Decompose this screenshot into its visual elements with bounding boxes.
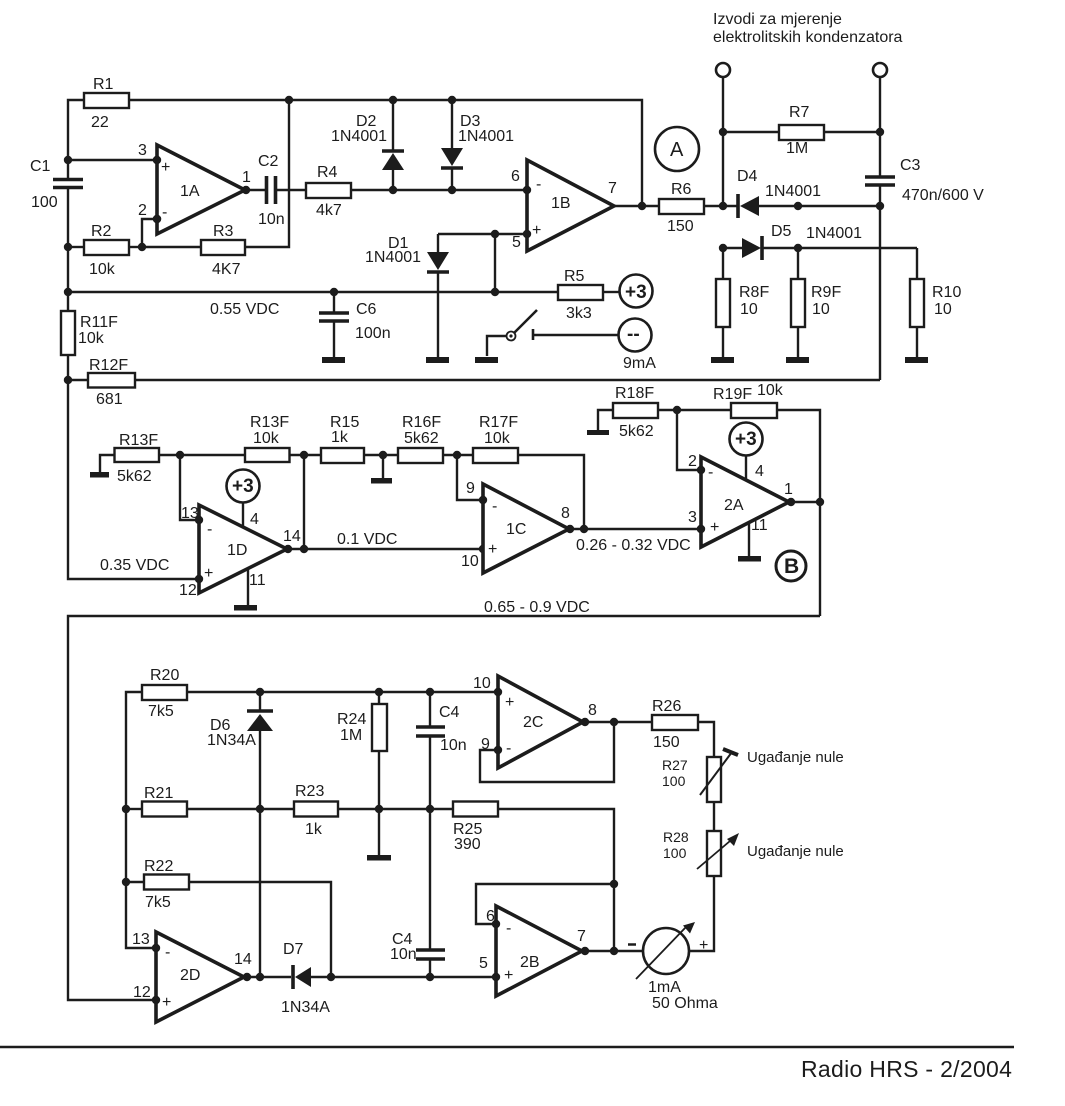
node B label (776, 551, 806, 581)
svg-text:+3: +3 (625, 282, 647, 303)
svg-text:9: 9 (466, 480, 475, 497)
svg-text:D7: D7 (283, 941, 304, 958)
op-amp 2C (473, 675, 597, 768)
svg-text:10k: 10k (757, 382, 784, 399)
node A label (655, 127, 699, 171)
svg-text:R4: R4 (317, 164, 338, 181)
wire meter to 2B output (581, 947, 643, 955)
svg-text:R11F: R11F (80, 314, 118, 331)
wire pin5 (438, 230, 527, 296)
svg-text:2A: 2A (724, 497, 744, 514)
svg-text:22: 22 (91, 114, 109, 131)
svg-text:100: 100 (662, 773, 686, 789)
svg-text:-: - (536, 176, 541, 193)
svg-text:R7: R7 (789, 104, 810, 121)
svg-text:1: 1 (242, 169, 251, 186)
resistor R12F (68, 357, 880, 408)
svg-text:8: 8 (588, 702, 597, 719)
svg-text:681: 681 (96, 391, 123, 408)
svg-text:7k5: 7k5 (148, 703, 174, 720)
svg-text:1N4001: 1N4001 (765, 183, 821, 200)
op-amp 2D (132, 931, 252, 1022)
svg-text:R16F: R16F (402, 414, 441, 431)
svg-text:R5: R5 (564, 268, 585, 285)
svg-text:8: 8 (561, 505, 570, 522)
wire 1B output (614, 202, 659, 210)
diode D5 (719, 223, 917, 260)
resistor R28 trimmer (663, 829, 739, 876)
node R13F right (176, 451, 199, 520)
svg-text:1C: 1C (506, 521, 526, 538)
node R22 left (122, 878, 130, 886)
svg-text:R27: R27 (662, 757, 688, 773)
svg-text:+: + (532, 222, 541, 239)
svg-text:470n/600 V: 470n/600 V (902, 187, 984, 204)
ground R8F (711, 357, 734, 363)
capacitor C2 (258, 153, 285, 228)
svg-text:+: + (162, 994, 171, 1011)
svg-text:+3: +3 (232, 476, 254, 497)
svg-text:2C: 2C (523, 714, 543, 731)
wire 0.65 VDC rail (68, 599, 820, 1000)
svg-text:3k3: 3k3 (566, 305, 592, 322)
svg-text:10: 10 (740, 301, 758, 318)
svg-text:10k: 10k (89, 261, 116, 278)
resistor R7 (723, 104, 880, 157)
resistor R24 (337, 692, 387, 856)
node feedback 1D (300, 451, 308, 549)
svg-text:1D: 1D (227, 542, 247, 559)
svg-text:2D: 2D (180, 967, 200, 984)
svg-text:3: 3 (138, 142, 147, 159)
svg-text:10n: 10n (258, 211, 285, 228)
resistor R9F (791, 248, 841, 357)
svg-text:10k: 10k (484, 430, 511, 447)
resistor R2 (68, 223, 142, 278)
svg-text:9mA: 9mA (623, 355, 656, 372)
svg-text:5k62: 5k62 (117, 468, 152, 485)
resistor R15 (321, 414, 398, 463)
svg-text:10k: 10k (78, 330, 105, 347)
svg-text:150: 150 (667, 218, 694, 235)
svg-text:13: 13 (181, 505, 199, 522)
node C4 R25 junction (426, 805, 434, 813)
svg-text:12: 12 (179, 582, 197, 599)
svg-text:+: + (488, 541, 497, 558)
node R21 left (122, 805, 130, 813)
node C6 (330, 288, 338, 296)
svg-text:12: 12 (133, 984, 151, 1001)
svg-text:C4: C4 (439, 704, 460, 721)
op-amp 1D (179, 505, 287, 599)
resistor R5 (558, 268, 619, 322)
capacitor C6 (319, 292, 391, 357)
wire pin2 (138, 215, 161, 251)
capacitor C3 (865, 157, 984, 380)
resistor R27 trimmer (662, 749, 738, 802)
node R1 left (64, 156, 72, 164)
svg-text:-: - (708, 464, 713, 481)
svg-text:1mA: 1mA (648, 979, 681, 996)
node 2B feedback junction (610, 880, 618, 888)
node D4 right (876, 202, 884, 210)
svg-text:-: - (207, 521, 212, 538)
svg-text:3: 3 (688, 509, 697, 526)
svg-text:10: 10 (473, 675, 491, 692)
svg-text:100n: 100n (355, 325, 391, 342)
terminal 2 (873, 63, 887, 177)
svg-text:14: 14 (234, 951, 252, 968)
svg-text:6: 6 (511, 168, 520, 185)
switch (475, 310, 618, 363)
svg-text:11: 11 (249, 572, 266, 589)
ground pin11 2A (738, 517, 768, 562)
svg-text:2: 2 (138, 202, 147, 219)
svg-text:R2: R2 (91, 223, 112, 240)
svg-text:14: 14 (283, 528, 301, 545)
svg-text:-: - (165, 944, 170, 961)
svg-text:B: B (784, 555, 799, 578)
resistor R10 (910, 248, 961, 357)
svg-text:--: -- (627, 324, 640, 345)
wire 2D output (243, 973, 291, 981)
ground D1 (426, 357, 449, 363)
svg-text:A: A (670, 139, 684, 161)
svg-text:4: 4 (755, 463, 764, 480)
diode D2 (331, 96, 404, 190)
svg-text:1N34A: 1N34A (281, 999, 330, 1016)
svg-text:+: + (161, 159, 170, 176)
ground R9F (786, 357, 809, 363)
svg-text:5k62: 5k62 (404, 430, 439, 447)
node C4 top (426, 688, 434, 696)
svg-text:7: 7 (608, 180, 617, 197)
svg-text:6: 6 (486, 908, 495, 925)
svg-text:+: + (204, 565, 213, 582)
node D3 bottom (448, 186, 456, 194)
resistor R22 (126, 858, 331, 977)
svg-text:7k5: 7k5 (145, 894, 171, 911)
node top rail R3 junction (285, 96, 293, 104)
resistor R13F 5k62 (115, 432, 246, 485)
resistor R11F (61, 311, 118, 380)
resistor R17F (473, 414, 518, 463)
svg-text:R20: R20 (150, 667, 179, 684)
node R12F (64, 376, 72, 384)
svg-text:10: 10 (812, 301, 830, 318)
ground R15 (371, 451, 392, 484)
diode D1 (365, 234, 449, 357)
op-amp 2A (688, 457, 793, 547)
svg-text:C2: C2 (258, 153, 279, 170)
node pin9 junction (453, 451, 483, 500)
svg-text:10n: 10n (440, 737, 467, 754)
wire 1A output (242, 186, 266, 194)
svg-text:1N4001: 1N4001 (458, 128, 514, 145)
svg-text:R12F: R12F (89, 357, 128, 374)
svg-text:0.65 - 0.9 VDC: 0.65 - 0.9 VDC (484, 599, 590, 616)
svg-text:R6: R6 (671, 181, 692, 198)
wire 2C feedback (480, 722, 614, 782)
diode D7 (281, 941, 496, 1016)
wire pin3 (68, 156, 161, 164)
footer text (801, 1056, 1012, 1082)
svg-text:R23: R23 (295, 783, 324, 800)
svg-text:R9F: R9F (811, 284, 841, 301)
svg-text:10k: 10k (253, 430, 280, 447)
resistor R18F (613, 385, 731, 440)
svg-text:R13F: R13F (119, 432, 158, 449)
svg-text:13: 13 (132, 931, 150, 948)
svg-text:2B: 2B (520, 954, 540, 971)
wire 2B feedback (476, 884, 614, 924)
svg-text:elektrolitskih kondenzatora: elektrolitskih kondenzatora (713, 29, 903, 46)
node +3 2A (730, 423, 765, 481)
resistor R13F 10k (245, 414, 321, 462)
svg-text:1M: 1M (786, 140, 808, 157)
ground C6 (322, 357, 345, 363)
svg-text:+3: +3 (735, 429, 757, 450)
svg-text:R8F: R8F (739, 284, 769, 301)
svg-text:1: 1 (784, 481, 793, 498)
svg-text:+: + (504, 967, 513, 984)
svg-text:50 Ohma: 50 Ohma (652, 995, 718, 1012)
resistor R8F (716, 248, 769, 357)
label Ugadanje nule 1 (747, 749, 844, 766)
svg-text:R1: R1 (93, 76, 114, 93)
svg-text:R24: R24 (337, 711, 366, 728)
op-amp 2B (479, 906, 586, 996)
svg-text:+: + (505, 694, 514, 711)
svg-text:5k62: 5k62 (619, 423, 654, 440)
ground R18F (587, 410, 613, 435)
svg-text:1k: 1k (305, 821, 323, 838)
wire left column bottom (126, 692, 156, 948)
svg-text:R26: R26 (652, 698, 681, 715)
svg-text:10n: 10n (390, 946, 417, 963)
resistor R3 (142, 223, 245, 278)
svg-text:5: 5 (512, 234, 521, 251)
svg-text:+: + (710, 519, 719, 536)
svg-text:1A: 1A (180, 183, 200, 200)
capacitor C1 (30, 158, 83, 211)
resistor R26 (652, 698, 714, 757)
terminal 1 (716, 63, 730, 206)
svg-text:R22: R22 (144, 858, 173, 875)
wire R4 to pin6 (351, 189, 527, 191)
capacitor C4 bottom (390, 931, 445, 981)
svg-text:C1: C1 (30, 158, 51, 175)
diode D4 (737, 168, 880, 218)
wire C2 to R4 (275, 189, 306, 191)
label Izvodi (713, 11, 903, 46)
svg-text:4k7: 4k7 (316, 202, 342, 219)
node R24 top (375, 688, 383, 696)
svg-text:C3: C3 (900, 157, 921, 174)
svg-text:R3: R3 (213, 223, 234, 240)
svg-text:10: 10 (461, 553, 479, 570)
svg-text:0.35 VDC: 0.35 VDC (100, 557, 169, 574)
svg-text:R13F: R13F (250, 414, 289, 431)
svg-text:R19F: R19F (713, 386, 752, 403)
svg-text:0.26 - 0.32 VDC: 0.26 - 0.32 VDC (576, 537, 691, 554)
svg-text:R28: R28 (663, 829, 689, 845)
svg-text:Ugađanje nule: Ugađanje nule (747, 843, 844, 860)
resistor R6 (659, 181, 738, 235)
resistor R23 (294, 783, 338, 838)
node D6 top (256, 688, 264, 696)
svg-text:150: 150 (653, 734, 680, 751)
svg-text:C6: C6 (356, 301, 377, 318)
svg-text:10: 10 (934, 301, 952, 318)
label Ugadanje nule 2 (747, 843, 844, 860)
svg-text:1B: 1B (551, 195, 571, 212)
svg-text:-: - (506, 740, 511, 757)
svg-text:1M: 1M (340, 727, 362, 744)
svg-text:R21: R21 (144, 785, 173, 802)
wire 0.1 VDC (283, 528, 487, 553)
svg-text:7: 7 (577, 928, 586, 945)
resistor R25 (453, 802, 614, 953)
wire R3 to top rail (245, 100, 289, 247)
node 9mA source (619, 319, 657, 373)
resistor R1 (84, 76, 129, 131)
svg-text:-: - (162, 204, 167, 221)
ground pin11 1D (234, 569, 266, 611)
resistor R20 (142, 667, 498, 720)
svg-text:1N4001: 1N4001 (806, 225, 862, 242)
svg-text:-: - (506, 920, 511, 937)
node C1 bottom (64, 243, 72, 251)
svg-text:R17F: R17F (479, 414, 518, 431)
resistor R21 (142, 785, 187, 817)
svg-text:1N4001: 1N4001 (365, 249, 421, 266)
wire 2C output (581, 718, 652, 726)
wire C1 to R2 node (67, 187, 69, 311)
wire R21 R23 line (126, 808, 453, 810)
svg-text:Izvodi za mjerenje: Izvodi za mjerenje (713, 11, 842, 28)
ground R10 (905, 357, 928, 363)
diode D6 (207, 692, 273, 977)
wire R19F to output (777, 410, 824, 616)
node +3 supply (620, 275, 653, 308)
wire top rail (68, 100, 642, 206)
svg-text:R18F: R18F (615, 385, 654, 402)
node +3 1D (227, 470, 260, 529)
ground R24 (367, 855, 391, 861)
svg-text:0.55 VDC: 0.55 VDC (210, 301, 279, 318)
svg-text:5: 5 (479, 955, 488, 972)
op-amp 1C (461, 480, 570, 573)
wire 2A output (787, 498, 820, 506)
resistor R4 (306, 164, 351, 219)
svg-text:2: 2 (688, 453, 697, 470)
svg-text:+: + (699, 937, 708, 954)
footer line (0, 1046, 1014, 1049)
node pin2 junction (673, 406, 701, 470)
resistor R19F (713, 382, 784, 418)
node rail 0.55 (64, 288, 72, 296)
svg-text:390: 390 (454, 836, 481, 853)
resistor R16F (398, 414, 473, 463)
svg-text:-: - (492, 498, 497, 515)
wire R17F feedback (518, 455, 584, 529)
svg-text:4K7: 4K7 (212, 261, 241, 278)
wire 1C output (566, 525, 705, 554)
svg-text:1N4001: 1N4001 (331, 128, 387, 145)
svg-text:100: 100 (663, 845, 687, 861)
diode D3 (441, 96, 514, 190)
meter 1mA (628, 922, 718, 1012)
wire 0.35 VDC (68, 380, 199, 579)
svg-text:D4: D4 (737, 168, 758, 185)
svg-text:100: 100 (31, 194, 58, 211)
svg-text:R10: R10 (932, 284, 961, 301)
svg-text:D5: D5 (771, 223, 792, 240)
svg-text:4: 4 (250, 511, 259, 528)
op-amp 1B (511, 160, 617, 251)
svg-text:Radio HRS - 2/2004: Radio HRS - 2/2004 (801, 1056, 1012, 1082)
node D6 R23 junction (256, 805, 264, 813)
node R24 bottom (375, 805, 383, 813)
op-amp 1A (138, 142, 251, 234)
ground R13F (90, 455, 114, 478)
wire 0.55 VDC rail (68, 292, 558, 318)
node D2 bottom (389, 186, 397, 194)
wire R27 to R28 (713, 802, 715, 831)
capacitor C4 top (416, 692, 467, 950)
svg-text:1N34A: 1N34A (207, 732, 256, 749)
svg-text:11: 11 (751, 517, 768, 534)
svg-text:0.1 VDC: 0.1 VDC (337, 531, 397, 548)
svg-text:Ugađanje nule: Ugađanje nule (747, 749, 844, 766)
wire R28 to meter (689, 876, 714, 951)
svg-text:1k: 1k (331, 429, 349, 446)
